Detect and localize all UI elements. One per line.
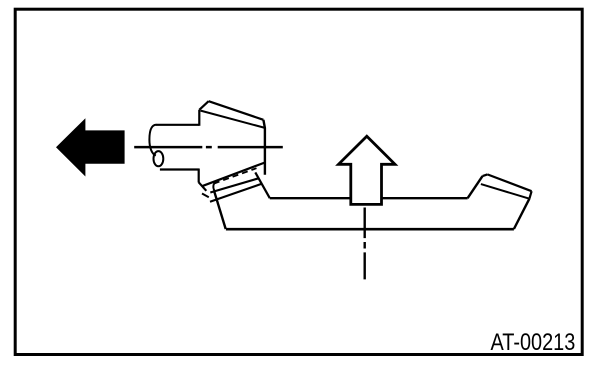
strap end lower cut [202,194,209,198]
lever right rise edge [468,176,483,198]
black arrow (press direction, pointing left) [56,118,125,176]
collar band bottom line [210,184,262,202]
cylinder left cap arc [149,125,156,156]
up arrow (lift direction, outlined) [339,136,396,204]
lever right tab inner slant [481,184,530,199]
vertical centerline below arrow (dash-dot) [364,208,366,280]
collar band middle line [210,178,258,192]
collar hidden spline line (dashed) [214,168,257,183]
svg-text:AT-00213: AT-00213 [491,329,576,356]
lever right tab end edge [529,191,531,199]
collar slot left end cap [213,182,216,191]
lever top edge [270,197,468,199]
cone top outer slant [209,101,264,120]
lever bottom edge [226,228,514,231]
lever left edge [214,191,226,229]
cone peak facet [199,101,208,110]
cone left edge upper [198,110,200,126]
collar band top line [202,163,265,187]
cylinder top line [156,124,199,126]
lever right tab facet [483,174,488,176]
cylinder bottom line [160,168,199,170]
horizontal shaft centerline (dash-dot) [134,146,283,149]
cone bottom-left corner cut [199,182,207,191]
lever arm fold edge [255,172,269,198]
cone left edge lower [198,169,200,183]
lever right tab outer slant [487,174,531,191]
lever lower-right edge [514,199,530,229]
cylinder end-face ellipse [154,151,164,166]
cone right edge [263,120,265,175]
cone top inner slant [201,111,265,128]
